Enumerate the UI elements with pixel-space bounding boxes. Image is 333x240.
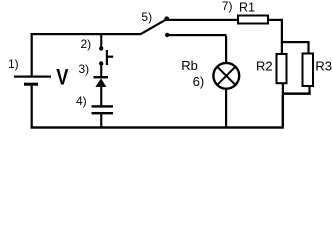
wire R3 top drop xyxy=(307,43,309,53)
diode D1 (3) cathode bar xyxy=(94,76,109,78)
wire middle branch upper (top wire to push-button) xyxy=(100,35,102,47)
svg-text:R1: R1 xyxy=(239,1,255,15)
wire diode to capacitor xyxy=(100,87,102,105)
wire lamp branch vertical upper xyxy=(225,36,227,63)
svg-text:6): 6) xyxy=(193,74,205,89)
svg-text:4): 4) xyxy=(76,94,87,108)
wire R3 bottom stub xyxy=(308,86,310,93)
battery V1 (1) long plate xyxy=(14,76,51,78)
node switch lower contact xyxy=(165,33,169,37)
wire R2 top connector xyxy=(281,43,283,54)
capacitor C1 (4) bottom plate xyxy=(92,112,114,114)
push-button S2 (2) actuator tick xyxy=(108,56,113,58)
diode D1 (3) triangle xyxy=(95,78,106,87)
svg-text:1): 1) xyxy=(8,57,19,71)
node push-button bottom contact xyxy=(99,61,103,65)
wire capacitor to bottom wire xyxy=(100,114,102,126)
node push-button top contact xyxy=(99,46,103,50)
svg-text:5): 5) xyxy=(141,10,152,24)
lamp Rb (6) cross xyxy=(217,67,235,85)
wire lamp branch vertical lower xyxy=(225,90,227,127)
wire bottom horizontal xyxy=(31,126,284,128)
push-button S2 (2) actuator bar xyxy=(106,50,108,65)
resistor R1 (7) body xyxy=(238,16,268,24)
wire battery bottom lead xyxy=(31,86,33,127)
svg-text:2): 2) xyxy=(81,37,92,51)
svg-text:R3: R3 xyxy=(315,58,332,73)
svg-text:Rb: Rb xyxy=(181,58,198,73)
wire top bar of parallel pair xyxy=(281,41,310,43)
svg-text:7): 7) xyxy=(222,0,233,13)
lamp Rb (6) circle xyxy=(213,63,239,89)
node switch top contact xyxy=(164,16,169,21)
svg-text:R2: R2 xyxy=(256,58,273,73)
wire R1 to right vertical xyxy=(269,19,283,21)
wire left vertical (battery top lead) xyxy=(31,33,33,76)
wire lower contact to lamp branch xyxy=(168,34,227,36)
wire switch top contact to R1 xyxy=(167,19,237,21)
wire push-button to diode xyxy=(100,66,102,77)
battery V1 (1) short plate xyxy=(24,83,38,86)
svg-text:3): 3) xyxy=(79,62,90,76)
wire bottom bar of parallel pair xyxy=(282,92,311,95)
wire right column down to bottom wire xyxy=(282,95,284,127)
wire R2 bottom stub xyxy=(282,83,284,92)
svg-text:V: V xyxy=(56,65,68,90)
resistor R3 body xyxy=(303,54,314,87)
resistor R2 body xyxy=(277,54,287,83)
capacitor C1 (4) top plate xyxy=(92,105,114,107)
wire right vertical (R1 down to bar) xyxy=(281,19,283,43)
wire top horizontal (battery to switch) xyxy=(31,33,142,35)
switch S5 (5) lever xyxy=(141,20,167,35)
